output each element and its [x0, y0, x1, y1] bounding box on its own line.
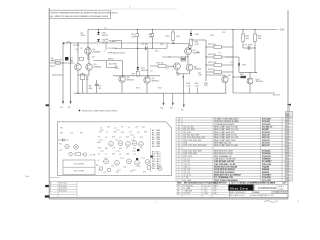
- layout pot box R50 R51: [63, 160, 95, 175]
- wire input rail A: [49, 62, 74, 64]
- resistor R11: [137, 70, 139, 71]
- svg-text:C16: C16: [123, 167, 126, 169]
- sheet number boxes: [272, 191, 274, 193]
- svg-text:R30: R30: [121, 132, 124, 134]
- svg-text:4.7K: 4.7K: [195, 44, 200, 46]
- wire Q3 collector: [88, 47, 90, 63]
- svg-text:2N3904: 2N3904: [262, 168, 270, 171]
- resistor R17: [242, 30, 244, 35]
- transistor Q3: [86, 64, 93, 71]
- resistor R26 block: [241, 76, 247, 78]
- svg-text:INPUT: INPUT: [50, 66, 56, 68]
- wire tail node: [74, 92, 112, 94]
- svg-text:R4 10K: R4 10K: [73, 45, 80, 47]
- svg-text:2C-047MY: 2C-047MY: [262, 160, 272, 163]
- title block row4: [230, 193, 289, 195]
- layout circle TO-5 A: [65, 144, 69, 148]
- svg-text:R30: R30: [185, 57, 189, 59]
- wire y57: [162, 56, 181, 58]
- wire q10 emitter: [249, 84, 251, 93]
- off-page bracket: [105, 61, 107, 68]
- svg-text:.1: .1: [103, 51, 105, 53]
- layout caption: [79, 110, 81, 112]
- wire r26 left: [233, 76, 241, 78]
- svg-text:R14: R14: [112, 137, 115, 139]
- layout inline row: [69, 152, 72, 155]
- svg-text:REL DATE 10-4-78: REL DATE 10-4-78: [230, 194, 244, 197]
- layout tick marks: [100, 129, 104, 131]
- svg-text:C9 100P: C9 100P: [245, 45, 253, 47]
- bottom-left revision box: [49, 181, 176, 183]
- resistor R9: [136, 30, 138, 34]
- svg-text:E16 - BLU: E16 - BLU: [152, 168, 161, 170]
- svg-text:ALL CAPACITOR VALUES IN MICROF: ALL CAPACITOR VALUES IN MICROFARADS. DIO…: [50, 15, 108, 18]
- svg-text:C20: C20: [70, 133, 73, 135]
- svg-text:10K: 10K: [176, 36, 180, 38]
- svg-text:P.C. TERMINAL PIN: P.C. TERMINAL PIN: [214, 176, 233, 179]
- svg-text:R7: R7: [98, 137, 100, 139]
- wire y72: [239, 71, 257, 73]
- node junction top rail: [98, 29, 99, 30]
- svg-text:R62: R62: [80, 133, 83, 135]
- svg-text:R38: R38: [126, 154, 129, 156]
- resistor R6: [86, 77, 88, 93]
- svg-text:2N3906: 2N3906: [93, 51, 101, 53]
- border frame bottom: [49, 196, 288, 198]
- svg-text:BRACKET MTG ALUMINUM: BRACKET MTG ALUMINUM: [214, 174, 241, 177]
- svg-text:C7: C7: [105, 154, 107, 156]
- wire Q5 emitter: [146, 83, 148, 93]
- svg-text:D. LANE: D. LANE: [184, 187, 192, 190]
- svg-text:Altec Corp: Altec Corp: [230, 186, 248, 190]
- svg-text:CR6: CR6: [137, 166, 140, 168]
- wire mid link y48: [115, 47, 168, 49]
- border frame right: [287, 10, 289, 199]
- svg-text:R9: R9: [121, 127, 123, 129]
- wire q6 emitter: [187, 55, 189, 64]
- svg-text:R31: R31: [136, 88, 140, 90]
- svg-text:PARTS LIST: PARTS LIST: [231, 182, 242, 185]
- svg-text:TP1: TP1: [60, 128, 63, 130]
- svg-text:1N4148: 1N4148: [141, 70, 148, 72]
- svg-text:+15V: +15V: [66, 41, 71, 43]
- resistor R23 branch: [206, 64, 214, 66]
- resistor R14: [190, 39, 193, 46]
- wire common rail: [112, 92, 227, 94]
- svg-text:2701-048: 2701-048: [262, 117, 271, 120]
- node R9 dot: [137, 29, 138, 30]
- svg-text:CAP ELECT 10 MF 25V: CAP ELECT 10 MF 25V: [214, 158, 237, 161]
- svg-text:R50 LEVEL: R50 LEVEL: [74, 163, 85, 165]
- svg-text:2N3904: 2N3904: [194, 69, 202, 71]
- wire q6 collector: [188, 44, 190, 48]
- wire q7q8 emitters: [176, 70, 178, 74]
- resistor R21 branch: [206, 46, 214, 48]
- svg-text:C2: C2: [80, 48, 82, 50]
- wire x106 drop: [105, 43, 107, 50]
- svg-text:R24 1K: R24 1K: [208, 69, 215, 71]
- svg-text:C4: C4: [100, 128, 102, 130]
- svg-text:C8: C8: [128, 127, 130, 129]
- svg-text:R29: R29: [210, 35, 214, 37]
- svg-text:XSTR NPN SI 2N3904: XSTR NPN SI 2N3904: [214, 168, 235, 171]
- title block size cell: [276, 184, 278, 191]
- wire +15V branch rail: [63, 42, 165, 44]
- svg-text:Q2: Q2: [114, 128, 116, 130]
- resistor R10: [151, 30, 153, 34]
- layout dark chips: [137, 149, 139, 151]
- svg-text:C11: C11: [129, 132, 132, 134]
- wire Q1 collector: [87, 30, 89, 48]
- transistor Q6: [185, 48, 192, 55]
- svg-text:470225: 470225: [262, 128, 270, 131]
- svg-text:C15: C15: [103, 172, 106, 174]
- svg-text:R21: R21: [142, 127, 145, 129]
- resistor R4 box: [80, 57, 84, 60]
- svg-text:R12: R12: [155, 51, 159, 53]
- transistor Q7: [174, 63, 181, 70]
- svg-text:R15, R17, R20, R23, R38: R15, R17, R20, R23, R38: [184, 145, 208, 147]
- title block row3: [230, 190, 289, 192]
- capacitor C1: [65, 57, 68, 60]
- svg-text:PART NUMBER: PART NUMBER: [262, 182, 276, 185]
- svg-text:C9: C9: [133, 137, 135, 139]
- general notes box: [49, 10, 110, 19]
- svg-text:1N270: 1N270: [102, 35, 109, 37]
- svg-text:C2: C2: [106, 132, 108, 134]
- svg-text:LIST OF MATERIALS: LIST OF MATERIALS: [200, 182, 219, 185]
- wire q10 collector: [249, 72, 251, 78]
- layout small circles bottom: [99, 167, 103, 171]
- resistor R20: [254, 30, 256, 35]
- svg-text:27030: 27030: [279, 189, 284, 191]
- layout transistor circles row2: [104, 159, 109, 164]
- svg-text:2N3904: 2N3904: [256, 81, 264, 83]
- left margin small mark: [25, 175, 29, 178]
- svg-text:SIZE C: SIZE C: [279, 186, 285, 188]
- resistor R18: [188, 87, 190, 93]
- svg-text:R33: R33: [98, 148, 101, 150]
- svg-text:REF DESIGNATION: REF DESIGNATION: [184, 182, 201, 185]
- layout divider: [149, 128, 151, 172]
- svg-text:THRESH: THRESH: [107, 53, 115, 55]
- bottom-left dark blob 1: [45, 185, 49, 187]
- svg-text:Q3: Q3: [119, 137, 121, 139]
- component layout box: [58, 122, 172, 176]
- svg-text:R2: R2: [92, 57, 94, 59]
- layout circle TO-5 B: [74, 145, 79, 150]
- svg-text:R21 10K: R21 10K: [208, 44, 216, 46]
- svg-text:RATIO: RATIO: [108, 58, 114, 61]
- company logo box: [228, 185, 253, 191]
- svg-text:COMPRESSOR: COMPRESSOR: [258, 187, 277, 190]
- svg-text:SCALE NONE: SCALE NONE: [251, 194, 263, 197]
- terminal arrow E5: [183, 93, 185, 104]
- svg-text:CAP CER DISC .01 MF: CAP CER DISC .01 MF: [214, 163, 236, 166]
- transistor Q2: [75, 64, 82, 71]
- svg-text:E8 - ORN: E8 - ORN: [152, 146, 161, 148]
- wire out rail x206: [205, 40, 207, 81]
- svg-text:C12: C12: [133, 154, 136, 156]
- svg-text:R41: R41: [105, 148, 108, 150]
- svg-text:Q6: Q6: [126, 148, 128, 150]
- wire Q2 emitter to node: [77, 71, 79, 94]
- svg-text:10K: 10K: [258, 38, 262, 40]
- parts list header band: [176, 181, 288, 183]
- svg-text:±.02: ±.02: [204, 188, 207, 190]
- terminal arrow E2: [70, 101, 72, 104]
- svg-text:CR2: CR2: [135, 127, 138, 129]
- capacitor C9: [243, 47, 248, 49]
- svg-text:CR5: CR5: [113, 132, 116, 134]
- svg-text:R60: R60: [60, 133, 63, 135]
- svg-text:R55: R55: [130, 171, 133, 173]
- wire output rail: [233, 92, 275, 94]
- transistor Q1: [85, 48, 92, 55]
- svg-text:R12: R12: [107, 127, 110, 129]
- svg-text:6801-CF: 6801-CF: [262, 145, 271, 147]
- svg-text:1: 1: [284, 192, 285, 194]
- resistor R3 inline: [56, 62, 61, 65]
- node q6 base junction: [190, 48, 191, 50]
- svg-text:9-12-78: 9-12-78: [184, 193, 190, 195]
- resistor R24 branch: [206, 71, 214, 73]
- wire input rail B: [52, 74, 63, 76]
- svg-text:C6: C6: [168, 57, 170, 59]
- svg-text:2N3904: 2N3904: [94, 66, 102, 68]
- wire y57 right: [226, 56, 239, 58]
- svg-text:R17: R17: [99, 132, 102, 134]
- wire r15 to q7: [166, 65, 173, 67]
- svg-text:RES THERMAL 2K: RES THERMAL 2K: [214, 155, 232, 158]
- wire r20 drop: [254, 48, 256, 72]
- terminal arrow E3: [163, 93, 165, 103]
- svg-text:1: 1: [286, 192, 287, 194]
- wire left drop 1: [62, 43, 64, 102]
- revision strip top arrow: [289, 104, 291, 112]
- svg-text:10K: 10K: [246, 38, 250, 40]
- svg-text:Q8: Q8: [137, 132, 139, 134]
- svg-text:1: 1: [272, 192, 273, 194]
- svg-text:2704-681: 2704-681: [262, 149, 271, 152]
- revision strip header cell: [285, 112, 292, 118]
- svg-text:+ 5V 2A: + 5V 2A: [89, 154, 96, 157]
- wire Q4 emitter: [121, 82, 123, 93]
- svg-text:PRINTED WIRING BOARD: PRINTED WIRING BOARD: [214, 120, 240, 123]
- node dots rail right: [243, 29, 244, 30]
- svg-text:R52: R52: [116, 172, 119, 174]
- svg-text:R3: R3: [98, 154, 100, 156]
- wire +15V top rail: [88, 29, 277, 31]
- wire Q2 collector: [77, 43, 79, 63]
- svg-text:CAP MYLAR .047 MF: CAP MYLAR .047 MF: [214, 160, 235, 163]
- svg-text:R64: R64: [59, 144, 62, 146]
- resistor R15 inline: [158, 65, 166, 68]
- svg-text:UNLESS OTHERWISE SPECIFIED: AL: UNLESS OTHERWISE SPECIFIED: ALL RESISTOR…: [50, 12, 118, 15]
- wire q5 collector: [147, 50, 149, 77]
- svg-text:ITEM: ITEM: [177, 183, 182, 185]
- svg-text:.22: .22: [218, 53, 221, 55]
- resistor R22 branch: [206, 56, 214, 58]
- border frame left: [48, 8, 50, 199]
- svg-text:±.005: ±.005: [204, 193, 208, 195]
- svg-text:R26: R26: [144, 132, 147, 134]
- svg-text:Q1: Q1: [119, 154, 121, 156]
- svg-text:2N3904: 2N3904: [152, 80, 160, 82]
- svg-text:C13: C13: [112, 148, 115, 150]
- transistor Q5: [144, 77, 150, 83]
- resistor R13: [172, 30, 174, 33]
- svg-text:R47: R47: [96, 165, 99, 167]
- svg-text:RES COMP 1/4W 5% 680: RES COMP 1/4W 5% 680: [214, 145, 239, 147]
- transistor Q9 top right: [222, 76, 228, 82]
- fold crease line: [110, 8, 177, 10]
- svg-text:C5: C5: [140, 148, 142, 150]
- diode CR1: [98, 30, 100, 33]
- revision strip: [284, 112, 286, 182]
- transistor Q8: [186, 64, 193, 71]
- capacitor C3: [96, 80, 98, 84]
- wire ref bus: [121, 41, 123, 49]
- svg-text:R26: R26: [240, 74, 244, 76]
- wire right column: [232, 30, 234, 94]
- svg-text:Q10: Q10: [111, 166, 114, 168]
- svg-text:100K: 100K: [81, 35, 86, 37]
- wire bias rail: [113, 75, 160, 77]
- svg-text:R3 10K: R3 10K: [56, 59, 63, 61]
- wire stage2 base: [93, 60, 123, 62]
- wire Q1 emitter: [87, 55, 89, 60]
- bottom right scribbles: [264, 201, 278, 203]
- wire left drop 2: [70, 43, 72, 102]
- terminal arrow E4: [172, 93, 174, 103]
- svg-text:TP1 GAIN: TP1 GAIN: [108, 40, 117, 43]
- junction dots extra: [63, 63, 64, 64]
- transistor Q10: [247, 78, 253, 84]
- svg-text:R32: R32: [158, 88, 162, 90]
- svg-text:R28: R28: [112, 154, 115, 156]
- svg-text:UNIT 27: UNIT 27: [249, 183, 256, 185]
- svg-text:CW LEVEL: CW LEVEL: [108, 48, 118, 50]
- layout transistor circles row1: [109, 141, 114, 146]
- wire plus rail extension: [165, 42, 189, 45]
- svg-text:COMPRESSOR ASSY: COMPRESSOR ASSY: [214, 123, 235, 126]
- svg-text:1: 1: [282, 192, 283, 194]
- svg-text:DENOTES COMPONENT SIDE VIEW: DENOTES COMPONENT SIDE VIEW: [82, 111, 117, 113]
- svg-text:J8 OUT: J8 OUT: [273, 94, 281, 96]
- svg-text:SHEET 1 OF 1: SHEET 1 OF 1: [263, 195, 274, 197]
- svg-text:2704-200: 2704-200: [262, 152, 271, 155]
- svg-text:SCHEM COMP AND ASSY: SCHEM COMP AND ASSY: [214, 117, 239, 120]
- svg-text:1: 1: [275, 192, 276, 194]
- svg-text:RES VAR 10K LIN: RES VAR 10K LIN: [214, 141, 231, 144]
- svg-text:R57: R57: [143, 172, 146, 174]
- svg-text:C10: C10: [230, 62, 234, 64]
- svg-text:MATL: MATL: [214, 184, 218, 187]
- svg-text:R24: R24: [140, 137, 143, 139]
- approvals block: [176, 186, 230, 188]
- svg-text:4701610: 4701610: [262, 131, 271, 134]
- diode CR6: [190, 30, 192, 34]
- svg-text:R23 4.7K: R23 4.7K: [208, 62, 217, 64]
- svg-text:1: 1: [279, 192, 280, 194]
- terminal arrow E1: [62, 101, 64, 104]
- parts list table: [176, 116, 288, 118]
- drawing title COMPRESSOR: [254, 184, 256, 191]
- svg-text:+ 15V: + 15V: [278, 29, 285, 32]
- svg-text:C6: C6: [105, 137, 107, 139]
- resistor R5: [81, 74, 85, 79]
- svg-text:2N3904: 2N3904: [127, 79, 135, 81]
- title block outline: [229, 182, 231, 198]
- svg-text:C14: C14: [104, 28, 107, 30]
- svg-text:DIODE SILICON 1N4148: DIODE SILICON 1N4148: [214, 166, 238, 169]
- diode CR2: [97, 39, 99, 41]
- svg-text:C22: C22: [59, 150, 62, 152]
- capacitor C6 box: [181, 57, 186, 61]
- bottom-left dark blob 2: [45, 195, 50, 197]
- svg-text:47K: 47K: [204, 85, 208, 87]
- svg-text:R45: R45: [133, 148, 136, 150]
- diode CR3: [137, 48, 139, 67]
- svg-text:R22 22K: R22 22K: [208, 54, 216, 56]
- svg-text:R15 1K: R15 1K: [157, 62, 164, 64]
- svg-text:R51 COMP: R51 COMP: [74, 171, 85, 173]
- wire Q3 emitter: [88, 71, 90, 75]
- svg-text:R36: R36: [119, 148, 122, 150]
- svg-text:1N4148: 1N4148: [262, 166, 270, 169]
- transistor Q4: [119, 76, 125, 82]
- svg-text:ECN 1301: ECN 1301: [59, 191, 67, 193]
- svg-text:R11: R11: [132, 73, 135, 75]
- svg-text:~..: ~..: [303, 11, 306, 14]
- diode CR7: [238, 57, 240, 64]
- layout capacitor symbol: [58, 139, 63, 141]
- svg-text:R19: R19: [126, 137, 129, 139]
- resistor R19a: [196, 87, 198, 93]
- left margin tick: [46, 104, 50, 106]
- capacitor C5: [145, 46, 147, 50]
- svg-text:C5 10P: C5 10P: [142, 44, 149, 46]
